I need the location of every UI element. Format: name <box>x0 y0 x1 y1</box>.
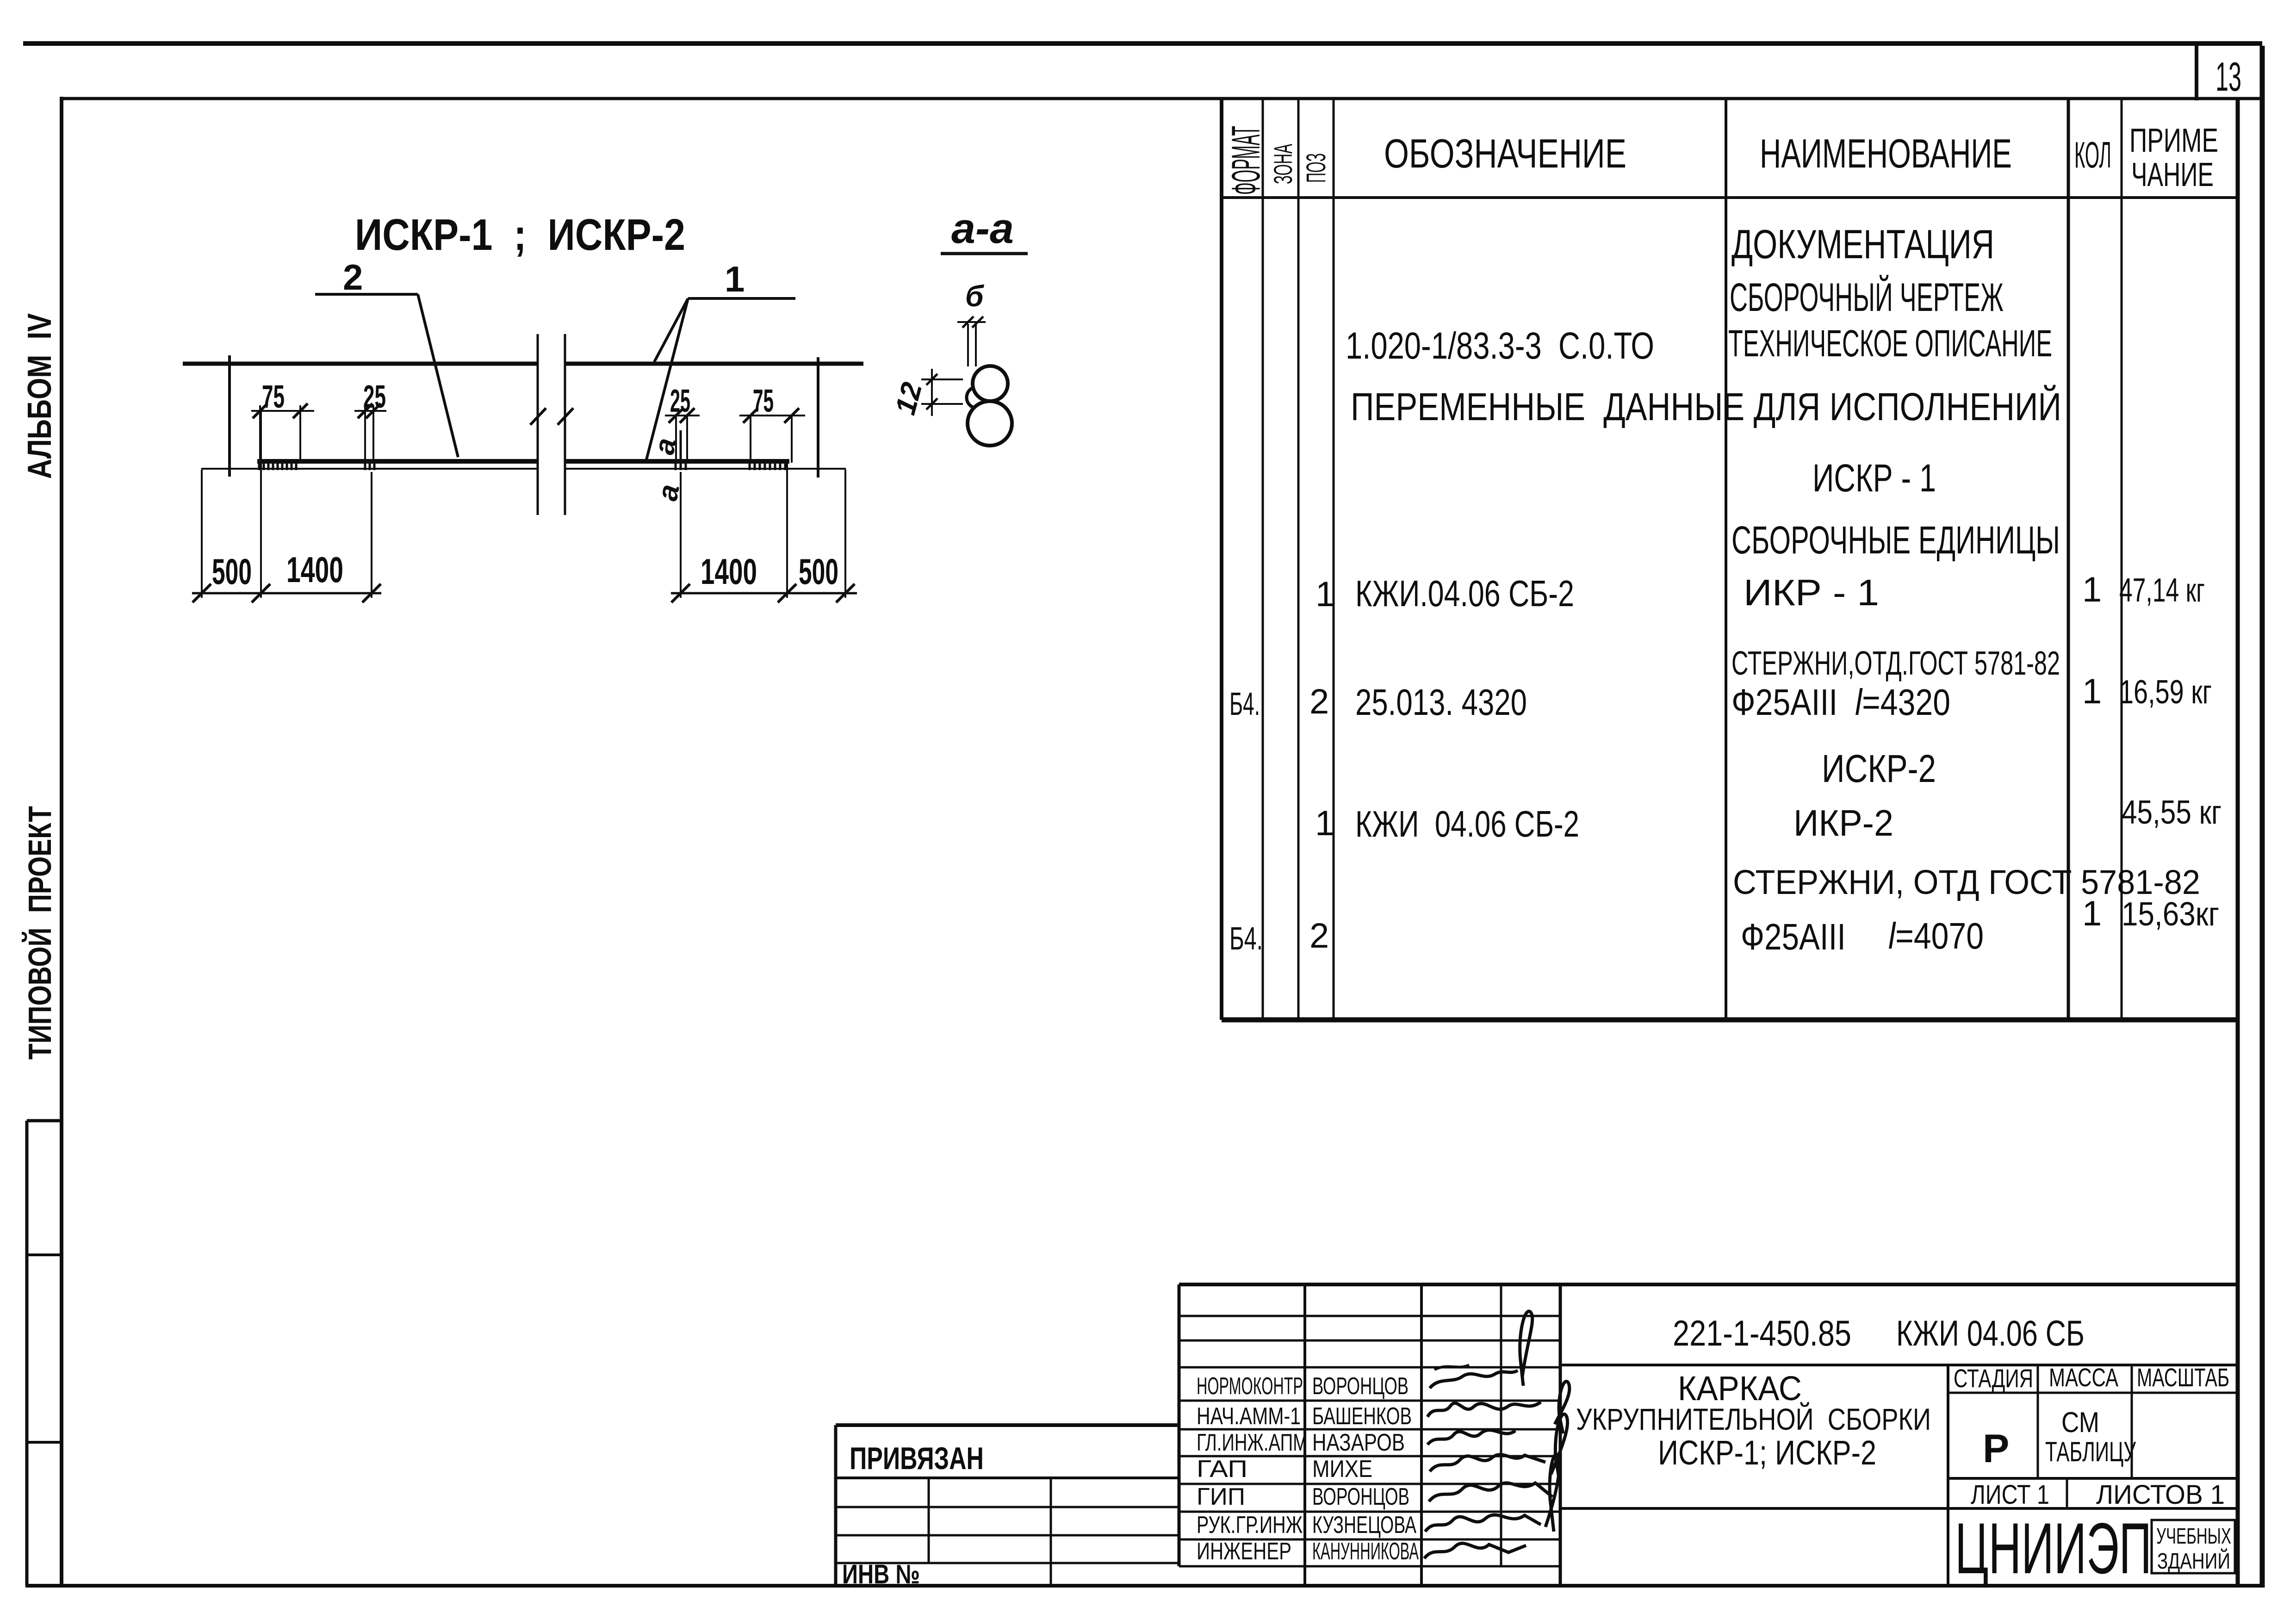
svg-text:КАНУННИКОВА: КАНУННИКОВА <box>1312 1538 1419 1565</box>
svg-text:УКРУПНИТЕЛЬНОЙ СБОРКИ: УКРУПНИТЕЛЬНОЙ СБОРКИ <box>1576 1402 1931 1436</box>
title block line under numbers <box>1560 1364 2238 1366</box>
svg-text:КЖИ 04.06 СБ-2: КЖИ 04.06 СБ-2 <box>1355 803 1579 844</box>
col line zona/poz <box>1297 99 1300 1020</box>
svg-text:15,63кг: 15,63кг <box>2122 896 2219 933</box>
svg-text:СБОРОЧНЫЕ ЕДИНИЦЫ: СБОРОЧНЫЕ ЕДИНИЦЫ <box>1731 518 2060 562</box>
sig table col line 3 <box>1500 1284 1502 1566</box>
svg-text:НАИМЕНОВАНИЕ: НАИМЕНОВАНИЕ <box>1760 130 2012 176</box>
svg-text:ГАП: ГАП <box>1197 1456 1247 1483</box>
svg-text:КУЗНЕЦОВА: КУЗНЕЦОВА <box>1312 1512 1416 1539</box>
svg-text:ВОРОНЦОВ: ВОРОНЦОВ <box>1312 1483 1409 1510</box>
privyazan box row line 4 <box>836 1562 1179 1564</box>
svg-text:АЛЬБОМ IV: АЛЬБОМ IV <box>21 313 58 479</box>
svg-text:ЦНИИЭП: ЦНИИЭП <box>1955 1508 2152 1589</box>
svg-text:ИСКР - 1: ИСКР - 1 <box>1812 456 1936 500</box>
col line poz/oboznachenie <box>1333 99 1335 1020</box>
stadia block left edge <box>1947 1365 1949 1585</box>
margin box column left edge <box>25 1121 29 1586</box>
svg-text:СМ: СМ <box>2061 1407 2099 1439</box>
svg-text:l=4070: l=4070 <box>1888 915 1984 956</box>
sig table row line 4 <box>1179 1400 1560 1402</box>
dimension 25 (right) <box>675 416 677 463</box>
svg-text:ИСКР-2: ИСКР-2 <box>1822 747 1936 790</box>
stadia header underline <box>1948 1392 2238 1394</box>
bottom dimension chain left (500,1400) <box>201 470 203 598</box>
weld hatch marks on bottom chord <box>259 463 785 470</box>
privyazan box col line 1 <box>928 1478 930 1563</box>
svg-text:БАШЕНКОВ: БАШЕНКОВ <box>1312 1403 1412 1430</box>
dimension 75 (left) <box>259 405 261 461</box>
svg-text:НОРМОКОНТР: НОРМОКОНТР <box>1197 1373 1303 1400</box>
svg-text:ПЕРЕМЕННЫЕ ДАННЫЕ ДЛЯ ИСПОЛНЕ: ПЕРЕМЕННЫЕ ДАННЫЕ ДЛЯ ИСПОЛНЕНИЙ <box>1351 385 2061 428</box>
svg-text:Ф25АIII: Ф25АIII <box>1741 916 1846 957</box>
margin box divider 1 <box>27 1253 63 1256</box>
sheet number box left edge <box>2195 45 2198 100</box>
svg-text:25.013. 4320: 25.013. 4320 <box>1355 682 1527 723</box>
svg-text:Б4.: Б4. <box>1229 920 1263 956</box>
svg-text:КОЛ: КОЛ <box>2074 134 2111 175</box>
svg-text:2: 2 <box>1309 916 1329 955</box>
svg-text:ТИПОВОЙ ПРОЕКТ: ТИПОВОЙ ПРОЕКТ <box>21 806 58 1060</box>
svg-text:1: 1 <box>1316 575 1335 614</box>
svg-text:ФОРМАТ: ФОРМАТ <box>1224 126 1268 195</box>
sig table row line 5 <box>1179 1428 1560 1431</box>
list row underline / name box bottom line <box>1560 1507 2238 1510</box>
svg-text:б: б <box>965 279 985 313</box>
svg-text:16,59 кг: 16,59 кг <box>2119 674 2212 711</box>
svg-text:ИСКР-1 ; ИСКР-2: ИСКР-1 ; ИСКР-2 <box>355 210 685 260</box>
svg-text:13: 13 <box>2215 54 2241 99</box>
small bar section circle (d12) <box>967 387 988 408</box>
title block center box left edge <box>1559 1284 1562 1585</box>
sig table row line 9 <box>1179 1539 1560 1541</box>
svg-text:ИСКР-1; ИСКР-2: ИСКР-1; ИСКР-2 <box>1658 1433 1876 1472</box>
bottom chord bar, right segment <box>565 459 789 464</box>
privyazan box row line 2 <box>836 1506 1179 1508</box>
table bottom border <box>1222 1017 2238 1023</box>
svg-text:ЗДАНИЙ: ЗДАНИЙ <box>2157 1548 2230 1574</box>
svg-text:25: 25 <box>670 383 690 419</box>
svg-text:ИКР-2: ИКР-2 <box>1793 802 1893 844</box>
frame right border <box>2260 46 2265 1588</box>
table left border <box>1220 99 1223 1020</box>
svg-text:2: 2 <box>1309 682 1329 721</box>
margin box top line <box>27 1119 63 1123</box>
svg-text:НАЗАРОВ: НАЗАРОВ <box>1312 1429 1405 1456</box>
svg-text:а-а: а-а <box>951 205 1014 252</box>
top chord bar, left segment <box>183 362 538 366</box>
svg-text:МАСШТАБ: МАСШТАБ <box>2137 1363 2229 1392</box>
svg-text:1.020-1/83.3-3 С.0.ТО: 1.020-1/83.3-3 С.0.ТО <box>1346 325 1654 367</box>
privyazan box left edge <box>834 1425 838 1586</box>
sig table row line 2 <box>1179 1340 1560 1342</box>
svg-text:СБОРОЧНЫЙ ЧЕРТЕЖ: СБОРОЧНЫЙ ЧЕРТЕЖ <box>1730 275 2004 320</box>
svg-text:1: 1 <box>1315 804 1334 843</box>
lower extension line, right <box>565 468 846 470</box>
svg-text:25: 25 <box>363 378 386 415</box>
svg-text:СТАДИЯ: СТАДИЯ <box>1954 1364 2033 1393</box>
svg-text:ТЕХНИЧЕСКОЕ ОПИСАНИЕ: ТЕХНИЧЕСКОЕ ОПИСАНИЕ <box>1728 323 2052 365</box>
break line right <box>564 334 566 515</box>
stadia block line 2 <box>1948 1477 2238 1480</box>
svg-text:45,55 кг: 45,55 кг <box>2122 794 2222 831</box>
svg-text:1: 1 <box>2082 672 2102 711</box>
svg-text:НАЧ.АММ-1: НАЧ.АММ-1 <box>1197 1403 1301 1430</box>
left end cross tick <box>228 355 231 477</box>
col line kol/primechanie <box>2121 99 2123 1020</box>
lower extension line, left <box>201 468 538 470</box>
table header bottom line <box>1222 196 2238 199</box>
frame bottom border <box>25 1584 2265 1588</box>
svg-text:РУК.ГР.ИНЖ.: РУК.ГР.ИНЖ. <box>1197 1512 1308 1539</box>
svg-text:ПРИВЯЗАН: ПРИВЯЗАН <box>850 1441 984 1476</box>
dimension 75 (right) <box>750 416 751 463</box>
svg-text:ЧАНИЕ: ЧАНИЕ <box>2131 156 2214 193</box>
bottom chord bar, left segment <box>257 459 538 464</box>
stadia/massa divider <box>2037 1365 2039 1478</box>
frame top border <box>60 97 2263 100</box>
sig table row line 8 <box>1179 1511 1560 1513</box>
frame left border <box>60 97 63 1586</box>
svg-text:221-1-450.85: 221-1-450.85 <box>1673 1313 1851 1353</box>
svg-text:Б4.: Б4. <box>1229 686 1260 722</box>
svg-text:1400: 1400 <box>286 549 343 590</box>
svg-text:ЗОНА: ЗОНА <box>1268 144 1297 184</box>
list/listov divider <box>2066 1478 2068 1509</box>
svg-text:ГИП: ГИП <box>1197 1483 1245 1510</box>
top heavy rule <box>23 41 2262 46</box>
svg-text:500: 500 <box>799 551 838 592</box>
dimension 25 (left) <box>364 405 366 461</box>
svg-text:ДОКУМЕНТАЦИЯ: ДОКУМЕНТАЦИЯ <box>1731 221 1994 267</box>
svg-text:1: 1 <box>2082 570 2102 609</box>
svg-text:МАССА: МАССА <box>2049 1363 2118 1392</box>
svg-text:ИКР - 1: ИКР - 1 <box>1744 572 1879 613</box>
svg-text:ИНВ №: ИНВ № <box>842 1559 920 1589</box>
svg-text:1: 1 <box>725 259 745 299</box>
svg-text:ПРИМЕ: ПРИМЕ <box>2129 122 2218 159</box>
break line left <box>537 334 539 515</box>
top chord bar, right segment <box>565 362 863 366</box>
svg-text:Ф25АIII l=4320: Ф25АIII l=4320 <box>1731 682 1950 723</box>
col line format/zona <box>1262 99 1264 1020</box>
svg-text:1400: 1400 <box>701 551 757 592</box>
svg-text:КЖИ.04.06 СБ-2: КЖИ.04.06 СБ-2 <box>1355 573 1574 614</box>
sig table col line 1 <box>1303 1284 1306 1585</box>
sig table row line 7 <box>1179 1483 1560 1485</box>
sig table row line 10 <box>1179 1565 1560 1568</box>
privyazan box top <box>836 1423 1179 1427</box>
svg-text:ГЛ.ИНЖ.АПМ: ГЛ.ИНЖ.АПМ <box>1197 1429 1308 1456</box>
signatures (handwritten) <box>1520 1311 1533 1386</box>
massa/masshtab divider <box>2131 1365 2133 1478</box>
table right border / title block right edge <box>2236 99 2240 1586</box>
svg-text:75: 75 <box>262 378 285 415</box>
top bar section circle (d25) <box>973 366 1008 401</box>
bottom dimension chain right (1400,500) <box>680 472 682 598</box>
sig table row line 3 <box>1179 1366 1560 1369</box>
svg-text:ПОЗ: ПОЗ <box>1301 153 1331 183</box>
sig table row line 6 <box>1179 1455 1560 1458</box>
svg-text:ВОРОНЦОВ: ВОРОНЦОВ <box>1312 1373 1409 1400</box>
svg-text:КЖИ 04.06 СБ: КЖИ 04.06 СБ <box>1896 1313 2085 1353</box>
svg-text:47,14 кг: 47,14 кг <box>2119 572 2205 609</box>
svg-text:75: 75 <box>753 383 774 419</box>
svg-text:СТЕРЖНИ,ОТД.ГОСТ 5781-82: СТЕРЖНИ,ОТД.ГОСТ 5781-82 <box>1731 645 2060 682</box>
privyazan box row line 1 <box>836 1477 1179 1479</box>
svg-text:ЛИСТОВ 1: ЛИСТОВ 1 <box>2096 1480 2225 1510</box>
privyazan box col line 2 <box>1050 1478 1052 1586</box>
right end cross tick <box>817 357 819 478</box>
svg-text:2: 2 <box>343 257 363 298</box>
sig table left edge <box>1178 1284 1181 1566</box>
svg-text:ИНЖЕНЕР: ИНЖЕНЕР <box>1197 1538 1291 1565</box>
privyazan box row line 3 <box>836 1534 1179 1537</box>
sig table row line 1 <box>1179 1315 1560 1317</box>
svg-text:500: 500 <box>212 551 252 592</box>
svg-text:ЛИСТ 1: ЛИСТ 1 <box>1971 1480 2049 1510</box>
svg-text:УЧЕБНЫХ: УЧЕБНЫХ <box>2156 1524 2231 1549</box>
svg-text:МИХЕ: МИХЕ <box>1312 1456 1372 1483</box>
svg-text:Р: Р <box>1983 1427 2009 1471</box>
svg-text:ТАБЛИЦУ: ТАБЛИЦУ <box>2045 1436 2136 1467</box>
margin box divider 2 <box>27 1441 63 1444</box>
bottom bar section circle (d25) <box>968 401 1012 446</box>
col line oboznachenie/naimenovanie <box>1725 99 1727 1020</box>
col line naimenovanie/kol <box>2067 99 2070 1020</box>
svg-text:ОБОЗНАЧЕНИЕ: ОБОЗНАЧЕНИЕ <box>1384 130 1626 176</box>
sig table col line 2 <box>1420 1284 1423 1585</box>
title block top border <box>1179 1283 2238 1286</box>
svg-text:1: 1 <box>2082 894 2102 933</box>
